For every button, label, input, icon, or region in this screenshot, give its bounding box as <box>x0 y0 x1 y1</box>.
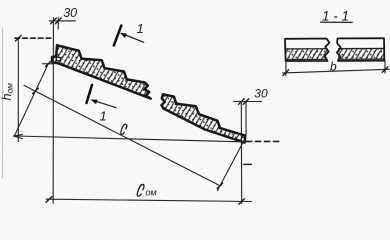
tick on D upper <box>33 88 39 94</box>
level line P with left arrow <box>14 136 243 142</box>
tick 30-left second <box>55 18 61 24</box>
l_om label <box>137 184 144 196</box>
tick on D lower <box>217 183 223 189</box>
svg-text:1 - 1: 1 - 1 <box>322 9 349 24</box>
section slab left piece <box>285 39 329 62</box>
bottom dimension l_om <box>46 199 252 201</box>
tick l_om left <box>46 197 52 203</box>
svg-text:1: 1 <box>137 21 144 36</box>
svg-text:b: b <box>330 59 337 73</box>
leader left (extension from top nose) <box>14 64 48 136</box>
left end rebate notch <box>56 57 60 61</box>
section cut mark lower <box>87 85 93 103</box>
leader right (extension from bottom tip) <box>217 142 243 191</box>
slope dimension line D <box>24 85 220 185</box>
svg-text:30: 30 <box>254 87 268 101</box>
short dash segment lower right <box>244 163 252 165</box>
dimension 30 right <box>234 101 262 103</box>
svg-text:30: 30 <box>63 6 77 20</box>
dashed level line bottom right <box>246 140 279 142</box>
tick at stub <box>46 61 52 67</box>
tick 30-left first <box>51 18 57 24</box>
b dimension <box>285 61 287 76</box>
svg-text:1: 1 <box>99 108 106 123</box>
script l label on D <box>121 124 127 134</box>
section slab right piece <box>337 38 384 61</box>
scan edge artifact <box>2 28 4 178</box>
h_om dimension (left vertical) <box>17 38 19 141</box>
svg-text:ом: ом <box>145 188 156 198</box>
dashed level line top left <box>15 37 54 39</box>
tick l_om right <box>239 199 245 205</box>
stair flight right piece <box>161 94 245 142</box>
stub at top corner <box>43 63 55 65</box>
tick h_om top <box>16 35 22 41</box>
dimension 30 top-left <box>49 17 76 203</box>
arrowhead at level line left end <box>13 134 22 138</box>
section cut mark upper <box>114 26 122 46</box>
stair flight left piece <box>52 45 151 98</box>
